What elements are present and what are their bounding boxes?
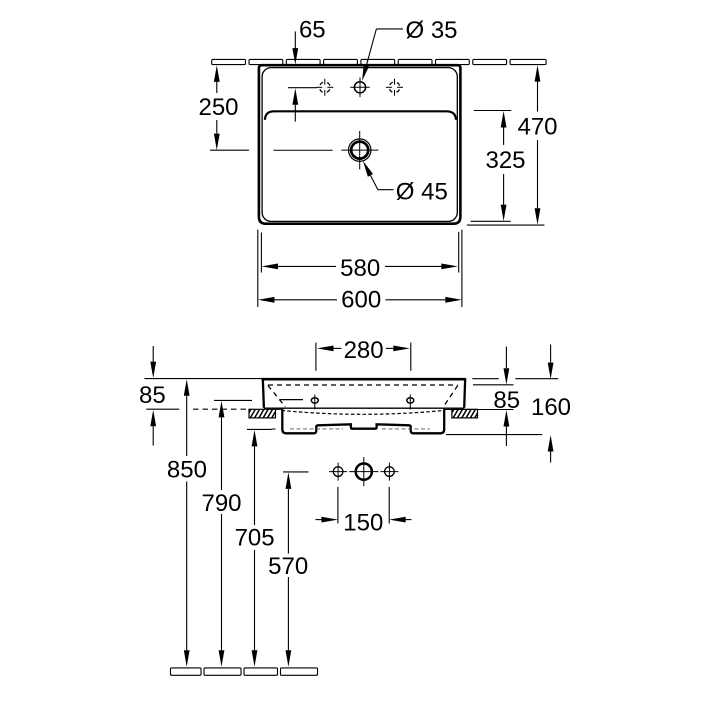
svg-text:470: 470 [517,114,557,141]
svg-text:850: 850 [167,456,207,483]
svg-text:Ø 35: Ø 35 [406,17,458,44]
svg-text:250: 250 [198,94,238,121]
svg-text:280: 280 [344,337,384,364]
svg-text:Ø 45: Ø 45 [396,179,448,206]
svg-text:325: 325 [485,147,525,174]
svg-text:65: 65 [299,17,326,44]
svg-text:85: 85 [139,382,166,409]
svg-text:790: 790 [201,490,241,517]
svg-text:85: 85 [493,387,520,414]
svg-text:150: 150 [343,510,383,537]
svg-text:160: 160 [531,394,571,421]
svg-text:705: 705 [235,525,275,552]
svg-text:570: 570 [268,553,308,580]
svg-text:600: 600 [341,287,381,314]
svg-text:580: 580 [340,255,380,282]
